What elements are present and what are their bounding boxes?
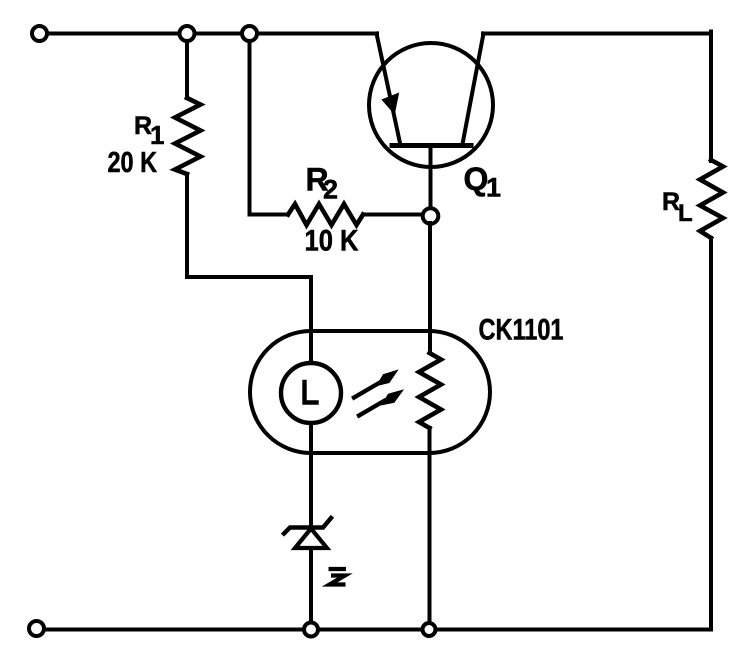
svg-text:2: 2	[323, 175, 338, 205]
wire Q1 base to node	[429, 146, 433, 210]
wire photoresistor to bottom node	[428, 428, 432, 623]
wire bottom rail	[44, 628, 711, 632]
terminal top-left	[32, 26, 47, 41]
terminal bottom-left	[29, 621, 44, 636]
photoresistor element	[419, 353, 441, 428]
wire R2 to base node	[363, 213, 424, 217]
node base junction	[423, 208, 439, 224]
lamp letter L	[305, 382, 317, 403]
wire top rail right	[483, 32, 711, 36]
svg-text:1: 1	[486, 173, 501, 203]
svg-text:Q: Q	[464, 161, 489, 197]
wire top rail left	[47, 32, 377, 36]
svg-text:1: 1	[150, 120, 164, 150]
wire node to photoresistor	[428, 223, 432, 353]
optocoupler CK1101 outline	[250, 331, 490, 453]
wire zener to bottom node	[309, 548, 313, 622]
svg-text:20 K: 20 K	[108, 147, 158, 179]
node bottom photoresistor branch	[423, 623, 436, 636]
transistor Q1	[369, 34, 493, 168]
resistor R2	[288, 204, 363, 225]
wire R1 bottom lead to lamp	[187, 174, 311, 363]
zener diode Z	[284, 518, 331, 548]
node top rail R2 branch	[242, 26, 257, 41]
node top rail R1	[180, 26, 195, 41]
wire lamp to zener	[309, 423, 313, 526]
node bottom zener branch	[304, 623, 318, 637]
svg-text:10 K: 10 K	[305, 225, 359, 258]
wire right side upper	[709, 32, 713, 162]
lamp L	[281, 363, 341, 423]
light arrow 2	[359, 389, 404, 415]
resistor RL	[700, 160, 723, 238]
light arrow 1	[354, 369, 399, 397]
resistor R1	[175, 98, 201, 174]
wire R1 top lead	[185, 34, 189, 99]
wire R2 branch lead	[250, 34, 289, 215]
wire right side lower	[709, 238, 713, 630]
svg-text:CK1101: CK1101	[479, 314, 564, 347]
svg-text:L: L	[678, 200, 693, 227]
label Z	[329, 569, 347, 585]
